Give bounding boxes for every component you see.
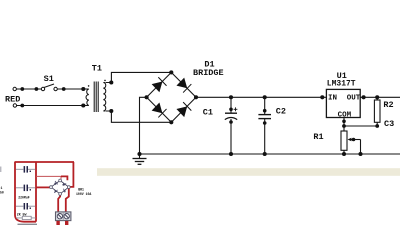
svg-text:100V 10A: 100V 10A bbox=[76, 192, 91, 196]
svg-text:IN: IN bbox=[328, 95, 337, 103]
svg-text:C1: C1 bbox=[203, 107, 213, 117]
svg-text:BRIDGE: BRIDGE bbox=[193, 68, 224, 78]
svg-text:LM317T: LM317T bbox=[327, 80, 356, 89]
svg-text:C2: C2 bbox=[276, 107, 286, 117]
svg-text:C3: C3 bbox=[384, 119, 394, 129]
svg-text:R1: R1 bbox=[313, 132, 323, 142]
svg-text:220MuF: 220MuF bbox=[18, 196, 30, 200]
svg-text:S1: S1 bbox=[44, 74, 54, 84]
svg-text:OUT: OUT bbox=[347, 94, 361, 102]
svg-text:T1: T1 bbox=[92, 63, 102, 73]
svg-text:RED: RED bbox=[5, 95, 20, 105]
svg-text:R2: R2 bbox=[383, 100, 393, 110]
svg-text:COM: COM bbox=[338, 111, 352, 119]
svg-text:BR1: BR1 bbox=[78, 187, 84, 191]
svg-text:1: 1 bbox=[1, 186, 3, 190]
svg-text:50: 50 bbox=[0, 190, 4, 194]
